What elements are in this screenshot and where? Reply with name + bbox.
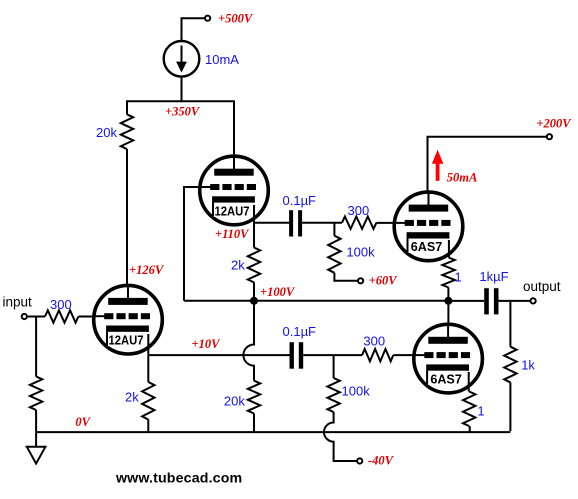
wire: current source to +350V rail [181, 77, 183, 102]
wire: +100V node down with hop over +10V line [243, 301, 254, 381]
svg-text:12AU7: 12AU7 [215, 204, 250, 218]
svg-text:output: output [523, 279, 561, 294]
wire: +100V rail [184, 300, 448, 302]
wire: upper 6AS7 cathode down [448, 240, 450, 258]
wire: lower 6AS7 cathode down [468, 372, 470, 392]
wire: lower 12AU7 cathode to +10V line [147, 334, 149, 382]
wire: upper 12AU7 grid to +100V node [184, 187, 210, 301]
capacitor C1 0.1uF [289, 210, 293, 236]
triode U2 upper 6AS7 [394, 192, 463, 261]
svg-text:0V: 0V [75, 415, 91, 429]
wire: output node to lower 6AS7 plate [447, 301, 449, 340]
svg-text:12AU7: 12AU7 [109, 334, 144, 348]
svg-text:300: 300 [50, 297, 72, 312]
wire: cathode to coupling cap [254, 222, 289, 224]
svg-text:50mA: 50mA [447, 170, 478, 184]
resistor 300 (input grid stopper) [45, 310, 78, 322]
svg-text:+10V: +10V [192, 337, 222, 351]
current source I1 10mA [164, 41, 200, 77]
triode U4 lower 6AS7 [414, 324, 483, 393]
wire: input to 300 [27, 316, 45, 318]
wire: 1k to bottom rail [509, 382, 511, 431]
svg-text:100k: 100k [346, 245, 375, 260]
wire: ground rail 0V [36, 431, 510, 433]
svg-text:6AS7: 6AS7 [411, 240, 443, 254]
svg-text:300: 300 [363, 333, 385, 348]
resistor input shunt [30, 377, 42, 411]
wire: 2k to ground rail [147, 420, 149, 433]
wire: node to output cap [448, 300, 484, 302]
wire: 1 ohm to output node [447, 288, 449, 301]
wire: 100k tap down with hop over ground rail [333, 355, 335, 378]
terminal +500V [205, 16, 210, 21]
svg-text:1: 1 [455, 269, 462, 284]
terminal input [22, 314, 27, 319]
wire: 2k to +100V node [253, 282, 255, 300]
svg-text:+200V: +200V [536, 117, 572, 131]
svg-text:2k: 2k [125, 390, 139, 405]
svg-text:2k: 2k [231, 258, 245, 273]
node +100V junction dot [250, 297, 258, 305]
wire: 100k tap down [333, 223, 335, 236]
svg-text:+350V: +350V [165, 104, 201, 118]
wire: shunt to ground rail [35, 410, 37, 447]
wire: cap to output terminal [499, 300, 531, 302]
wire: 300 to upper 6AS7 grid [376, 222, 404, 224]
capacitor C3 1kuF [484, 288, 489, 314]
svg-text:20k: 20k [224, 394, 245, 409]
resistor 20k (plate load) [121, 114, 133, 149]
wire: 300 to lower 6AS7 grid [393, 354, 424, 356]
resistor 1 (upper 6AS7 cathode) [442, 258, 454, 288]
svg-text:300: 300 [348, 203, 370, 218]
wire: cap to 300 (lower) [303, 354, 362, 356]
wire: 20k to ground rail [253, 414, 255, 433]
resistor 1 (lower 6AS7 cathode) [463, 392, 475, 427]
triode U1 upper 12AU7 [200, 156, 269, 225]
resistor 1k (output load) [504, 347, 516, 383]
wire: 300 to lower 12AU7 grid [78, 316, 106, 318]
resistor 20k (lower) [248, 381, 260, 414]
ground symbol [27, 447, 46, 464]
resistor 300 (upper grid stopper) [342, 217, 376, 229]
wire: 20k to lower 12AU7 plate [126, 149, 128, 300]
resistor 100k (lower grid return) [327, 378, 339, 412]
svg-text:+100V: +100V [260, 285, 296, 299]
wire: input shunt branch [35, 317, 37, 377]
wire: upper 12AU7 cathode down [253, 205, 255, 248]
resistor 2k (lower cathode) [142, 382, 154, 420]
terminal +60V [358, 278, 363, 283]
svg-text:1: 1 [477, 403, 484, 418]
triode U3 lower 12AU7 [94, 285, 163, 354]
svg-text:-40V: -40V [368, 454, 395, 468]
terminal output [531, 298, 536, 303]
svg-text:100k: 100k [342, 384, 371, 399]
svg-text:www.tubecad.com: www.tubecad.com [115, 471, 242, 487]
svg-text:input: input [3, 295, 33, 310]
terminal -40V [357, 458, 362, 463]
svg-text:0.1µF: 0.1µF [283, 324, 317, 339]
wire: +200V rail [428, 137, 547, 193]
current arrow 50mA [432, 150, 443, 181]
wire: 1 ohm to bottom rail [469, 426, 471, 432]
svg-text:10mA: 10mA [205, 52, 239, 67]
wire: +10V line [148, 354, 289, 356]
svg-text:20k: 20k [96, 125, 117, 140]
capacitor C2 0.1uF [290, 342, 294, 369]
resistor 300 (lower grid stopper) [362, 349, 393, 361]
wire: +350V rail [127, 101, 234, 169]
svg-text:+110V: +110V [215, 227, 250, 241]
svg-text:+60V: +60V [369, 274, 399, 288]
svg-text:1k: 1k [521, 358, 535, 373]
svg-text:+500V: +500V [218, 12, 254, 26]
resistor 100k (upper grid return) [328, 236, 340, 273]
wire: 1k branch down [509, 301, 511, 347]
svg-text:+126V: +126V [129, 263, 165, 277]
wire: cap to 300 grid stopper [302, 222, 342, 224]
svg-text:0.1µF: 0.1µF [283, 193, 317, 208]
svg-text:6AS7: 6AS7 [430, 372, 462, 386]
wire: 100k hop to -40V terminal [324, 412, 357, 461]
wire: 100k to +60V terminal [334, 273, 357, 281]
wire: +500V terminal lead [182, 18, 205, 41]
svg-text:1kµF: 1kµF [479, 269, 508, 284]
resistor 2k (upper cathode) [248, 248, 260, 283]
node output junction dot [444, 297, 452, 305]
terminal +200V [547, 134, 552, 139]
